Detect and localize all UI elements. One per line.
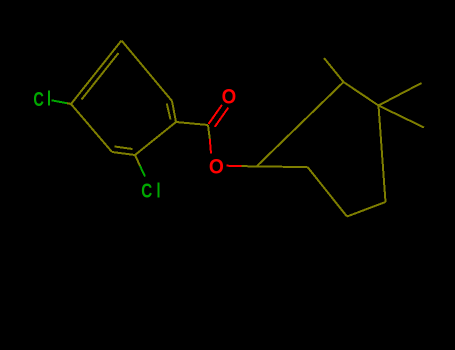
C-O ester bond: red half: [210, 139, 211, 154]
Cl (top-left) half bond green: [52, 100, 68, 103]
right ring V2-V3 bond: [308, 167, 348, 217]
right ring V4-V5 bond: [379, 106, 386, 203]
benzene ring C5-C6 bond (upper right): [122, 41, 173, 102]
methyl on V6: [324, 58, 344, 82]
ester O to C1' bond: red half: [227, 165, 242, 167]
methyl on V5 upper: [379, 83, 422, 106]
benzene ring C2-C1 bond (lower right): [135, 122, 176, 155]
svg-text:O: O: [209, 155, 224, 178]
C2-Cl2 half bond green: [140, 166, 145, 177]
svg-text:O: O: [222, 86, 237, 109]
benzene ring C4=C5 bond (upper-left, double): [71, 41, 122, 105]
C-O ester bond: olive half: [208, 125, 210, 139]
carbonyl C=O double bond (red): [209, 105, 229, 127]
right ring V5-V6 bond: [344, 82, 379, 106]
ring C1 to carbonyl C bond: [176, 122, 208, 125]
benzene ring C6=C1 bond (short right, double): [167, 101, 176, 122]
C2-Cl2 half bond olive: [135, 155, 140, 166]
svg-text:C: C: [141, 180, 152, 203]
svg-text:C: C: [33, 88, 44, 111]
right ring C1'-V2 bond: [257, 166, 308, 169]
Cl (top-left) half bond olive: [67, 102, 71, 105]
right ring V6-C1' long bond: [257, 82, 344, 167]
benzene ring C4-C3 bond (left lower): [71, 104, 112, 152]
ester O to C1' bond: olive half: [242, 165, 257, 167]
right ring V3-V4 bond: [347, 202, 386, 217]
benzene ring C3=C2 bond (bottom, double): [112, 147, 135, 156]
methyl on V5 lower: [379, 106, 425, 128]
